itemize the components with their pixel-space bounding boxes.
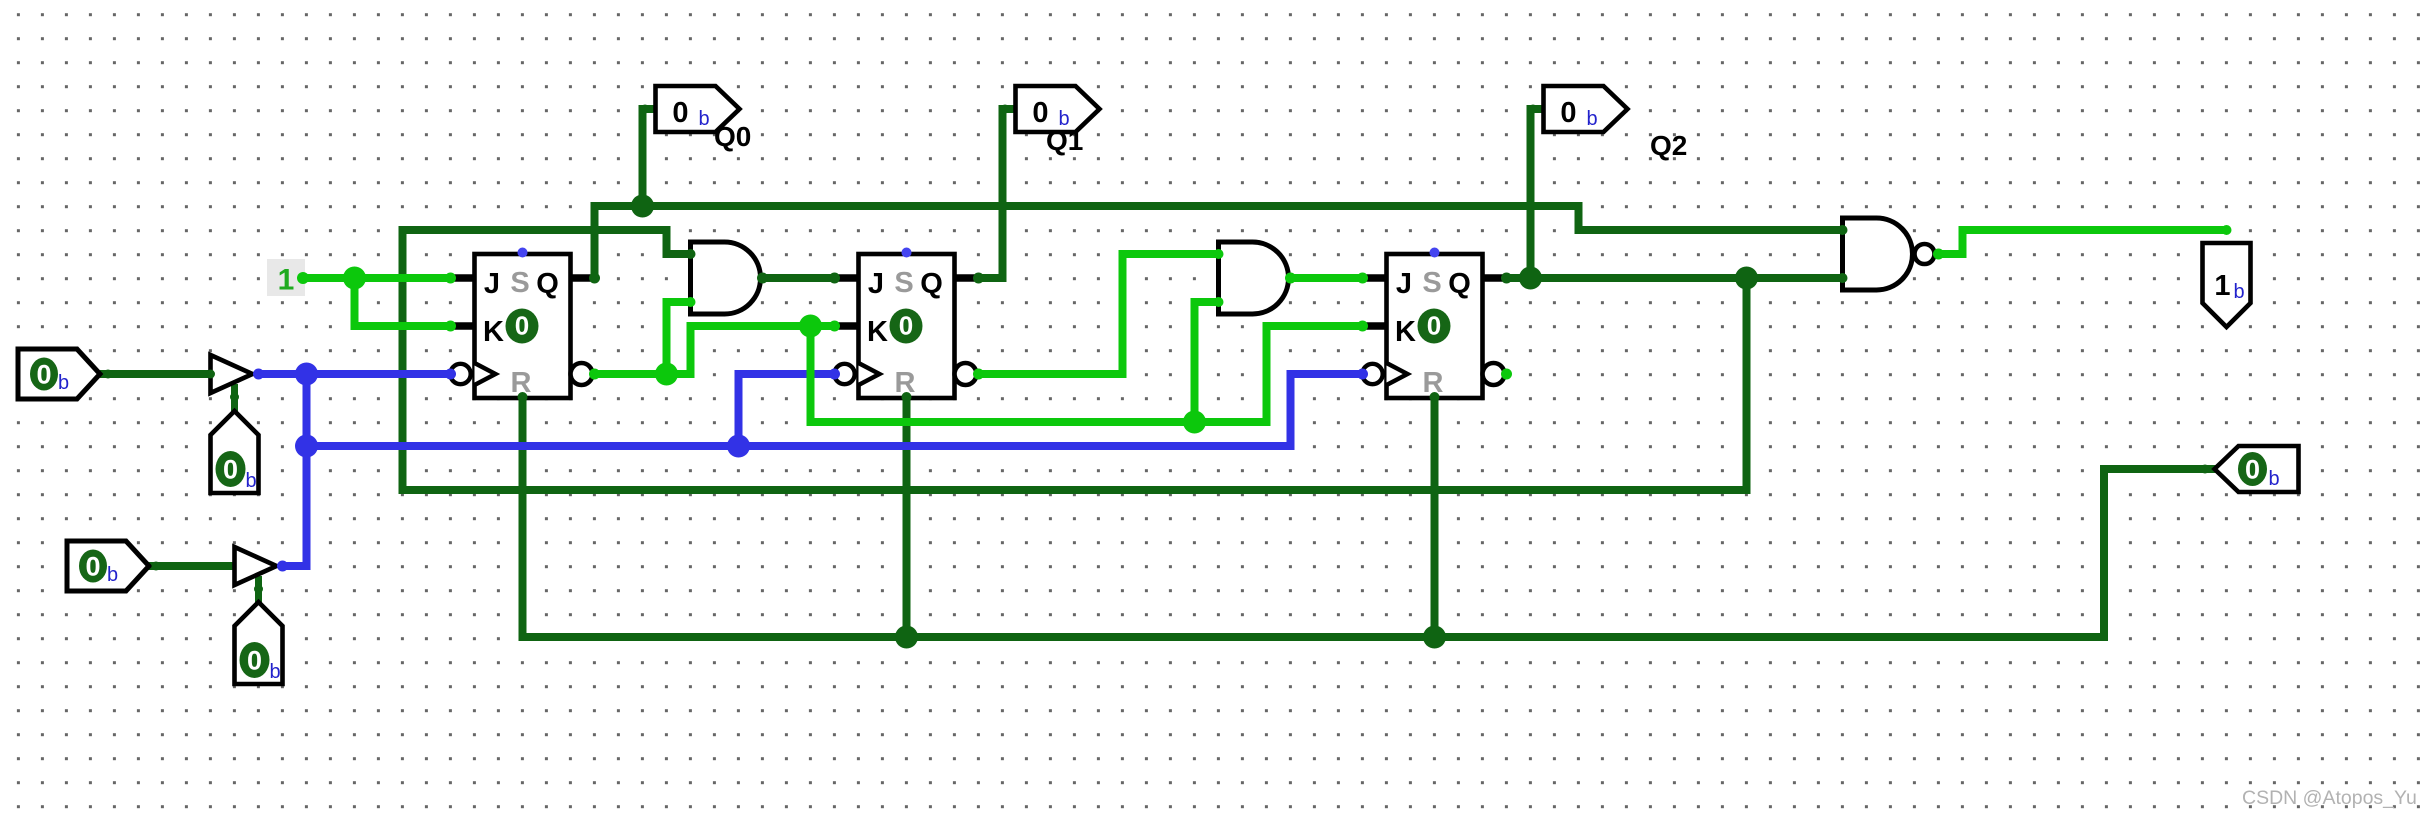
svg-text:b: b bbox=[246, 470, 257, 492]
wire: reset bus from FF1.R to output tag at right bbox=[523, 398, 2217, 637]
output tag Q0 (0b) bbox=[656, 86, 740, 132]
wire: FF2.Qbar to AND2 input A bbox=[979, 254, 1219, 374]
port dot: FF1.Qbar bbox=[589, 369, 600, 380]
wire: clock bus to FF3 clock bbox=[307, 374, 1363, 446]
wire: buffer B1 enable stub to tag EN1 bbox=[231, 384, 238, 412]
svg-text:0: 0 bbox=[223, 455, 238, 485]
JK flip-flop FF2 bbox=[834, 254, 976, 399]
port dot: FF1.Q bbox=[589, 273, 600, 284]
port dot: FF2 clock bbox=[829, 369, 840, 380]
wire: AND2 output to FF3.J bbox=[1291, 274, 1363, 282]
junction: Q0 bus node bbox=[631, 195, 654, 218]
wire: FF1.Qbar branch to AND1 input B bbox=[667, 302, 691, 374]
svg-text:0: 0 bbox=[2245, 455, 2260, 485]
port dot: tag Q0 bbox=[641, 105, 650, 114]
port dot: buffer B1 enable bbox=[230, 393, 239, 402]
wire: FF1.Qbar to FF2.K bbox=[595, 326, 835, 374]
junction: reset bus at FF2.R bbox=[895, 626, 918, 649]
junction: FF2.K node bbox=[799, 315, 822, 338]
port dot: FF3.S bbox=[1430, 248, 1440, 258]
AND gate AND1 bbox=[691, 242, 761, 314]
AND gate AND2 bbox=[1219, 242, 1289, 314]
wire: FF2.R down to reset bus bbox=[903, 398, 911, 637]
svg-text:0: 0 bbox=[899, 311, 913, 341]
port dot: tag OUT1 bbox=[2222, 225, 2232, 235]
wire: input pin CLK2 to buffer B2 input bbox=[149, 562, 235, 570]
port dot: FF1.S bbox=[518, 248, 528, 258]
port dot: NAND output bbox=[1933, 249, 1944, 260]
port dot: tag Q2 bbox=[1529, 105, 1538, 114]
wire: FF3.Q to NAND input B bbox=[1507, 274, 1843, 282]
port dot: AND1 output bbox=[757, 273, 768, 284]
svg-text:K: K bbox=[1395, 316, 1416, 348]
port dot: FF2.R bbox=[902, 392, 912, 402]
port dot: tag Q1 bbox=[1001, 105, 1010, 114]
output tag OUT1 (1b) bbox=[2203, 243, 2251, 327]
port dot: FF2.Qbar bbox=[973, 369, 984, 380]
wire: clock bus branch to FF2 clock bbox=[739, 374, 835, 446]
port dot: buffer B1 input bbox=[206, 370, 215, 379]
port dot: FF3.Qbar bbox=[1501, 369, 1512, 380]
port dot: FF3.K bbox=[1357, 321, 1368, 332]
svg-text:b: b bbox=[2269, 468, 2280, 490]
svg-text:Q: Q bbox=[536, 268, 559, 300]
svg-text:0: 0 bbox=[85, 552, 100, 582]
wire: AND1 output to FF2.J bbox=[763, 274, 835, 282]
wire: FF2.Q up to output tag Q1 bbox=[979, 109, 1018, 278]
port dot: pin CLK2 output bbox=[152, 562, 161, 571]
JK flip-flop FF1 bbox=[450, 254, 592, 399]
port dot: FF3.J bbox=[1357, 273, 1368, 284]
port dot: FF2.K bbox=[829, 321, 840, 332]
wire: FF3.Q branch up to output tag Q2 bbox=[1531, 109, 1546, 278]
port dot: AND1 input B bbox=[686, 297, 696, 307]
svg-text:b: b bbox=[270, 661, 281, 683]
constant 1 source bbox=[267, 259, 305, 297]
svg-text:0: 0 bbox=[247, 646, 262, 676]
junction: FF3.Q / Q2 node bbox=[1519, 267, 1542, 290]
svg-text:J: J bbox=[868, 268, 884, 300]
buffer B1 bbox=[211, 355, 253, 393]
wire: FF3.R down to reset bus bbox=[1431, 398, 1439, 637]
svg-text:b: b bbox=[1587, 108, 1598, 130]
wire: buffer B2 enable stub to tag EN2 bbox=[255, 576, 262, 604]
svg-text:0: 0 bbox=[515, 311, 529, 341]
junction: FF1.Qbar node bbox=[655, 363, 678, 386]
wire: FF3.Q feedback to AND1 input A bbox=[403, 230, 1747, 490]
wire: constant 1 to FF1.J bbox=[303, 274, 451, 282]
junction: reset bus at FF3.R bbox=[1423, 626, 1446, 649]
port dot: tag RESET bbox=[2201, 465, 2210, 474]
wire: FF1.Q up and along bus to NAND input A bbox=[595, 206, 1843, 278]
wire: Q0 bus branch up to output tag Q0 bbox=[643, 109, 658, 206]
svg-text:b: b bbox=[699, 108, 710, 130]
input pin CLK1 (0b) bbox=[18, 349, 100, 399]
port dot: constant 1 output bbox=[297, 272, 309, 284]
wire: feedback branch to AND2 input B bbox=[1195, 302, 1219, 422]
svg-text:Q1: Q1 bbox=[1046, 125, 1083, 156]
svg-text:1: 1 bbox=[2214, 270, 2230, 302]
junction: clock bus to FF2 node bbox=[727, 435, 750, 458]
svg-text:0: 0 bbox=[672, 97, 688, 129]
svg-text:J: J bbox=[484, 268, 500, 300]
input pin CLK2 (0b) bbox=[67, 541, 149, 591]
port dot: AND2 input A bbox=[1214, 249, 1224, 259]
output tag Q1 (0b) bbox=[1016, 86, 1100, 132]
port dot: FF1.J bbox=[445, 273, 456, 284]
port dot: FF3.Q bbox=[1501, 273, 1512, 284]
port dot: buffer B2 enable bbox=[254, 585, 263, 594]
port dot: FF1 clock bbox=[445, 369, 456, 380]
svg-text:b: b bbox=[2234, 281, 2245, 303]
port dot: pin CLK1 output bbox=[104, 370, 113, 379]
svg-text:S: S bbox=[1422, 267, 1441, 299]
svg-text:S: S bbox=[894, 267, 913, 299]
wire: FF1.Qbar feedback to FF3.K bbox=[811, 326, 1363, 422]
svg-text:Q: Q bbox=[920, 268, 943, 300]
output tag RESET (0b) bbox=[2215, 446, 2299, 492]
svg-text:b: b bbox=[58, 372, 69, 394]
svg-text:0: 0 bbox=[1427, 311, 1441, 341]
port dot: NAND input A bbox=[1838, 225, 1848, 235]
port dot: NAND input B bbox=[1838, 273, 1848, 283]
port dot: FF2.S bbox=[902, 248, 912, 258]
port dot: AND2 output bbox=[1285, 273, 1296, 284]
svg-text:CSDN @Atopos_Yu: CSDN @Atopos_Yu bbox=[2242, 787, 2417, 809]
port dot: FF1.K bbox=[445, 321, 456, 332]
junction: clock bus left node bbox=[295, 435, 318, 458]
svg-text:K: K bbox=[483, 316, 504, 348]
label Q0 bbox=[714, 121, 751, 152]
svg-text:S: S bbox=[510, 267, 529, 299]
svg-text:Q0: Q0 bbox=[714, 121, 751, 152]
port dot: FF3 clock bbox=[1357, 369, 1368, 380]
svg-text:Q: Q bbox=[1448, 268, 1471, 300]
port dot: FF1.R bbox=[518, 392, 528, 402]
buffer B2 bbox=[235, 547, 277, 585]
watermark CSDN @Atopos_Yu bbox=[2242, 787, 2417, 809]
enable tag EN2 (0b) bbox=[235, 602, 283, 684]
port dot: B1 output bbox=[253, 369, 264, 380]
wire: constant 1 branch to FF1.K bbox=[355, 278, 451, 326]
svg-text:Q2: Q2 bbox=[1650, 130, 1687, 161]
svg-text:0: 0 bbox=[1560, 97, 1576, 129]
NAND gate NAND1 bbox=[1843, 218, 1935, 290]
port dot: FF3.R bbox=[1430, 392, 1440, 402]
JK flip-flop FF3 bbox=[1362, 254, 1504, 399]
svg-text:0: 0 bbox=[36, 360, 51, 390]
wire: clock net down to buffer B2 output bbox=[283, 374, 307, 566]
wire: buffer B1 output to FF1 clock bbox=[259, 370, 451, 378]
enable tag EN1 (0b) bbox=[211, 411, 259, 493]
svg-text:J: J bbox=[1396, 268, 1412, 300]
svg-text:K: K bbox=[867, 316, 888, 348]
port dot: FF2.J bbox=[829, 273, 840, 284]
label Q2 bbox=[1650, 130, 1687, 161]
svg-text:b: b bbox=[107, 564, 118, 586]
junction: FF3.K / AND2 node bbox=[1183, 411, 1206, 434]
port dot: FF2.Q bbox=[973, 273, 984, 284]
label Q1 bbox=[1046, 125, 1083, 156]
junction: clock node at B1 output bbox=[295, 363, 318, 386]
port dot: AND1 input A bbox=[686, 249, 696, 259]
svg-text:1: 1 bbox=[278, 264, 295, 297]
port dot: AND2 input B bbox=[1214, 297, 1224, 307]
junction: constant-1 J/K node bbox=[343, 267, 366, 290]
wire: input pin CLK1 to buffer B1 input bbox=[100, 370, 211, 378]
junction: FF3.Q / feedback node bbox=[1735, 267, 1758, 290]
wire: NAND output to tag OUT1 bbox=[1939, 230, 2227, 254]
port dot: B2 output bbox=[277, 561, 288, 572]
output tag Q2 (0b) bbox=[1544, 86, 1628, 132]
